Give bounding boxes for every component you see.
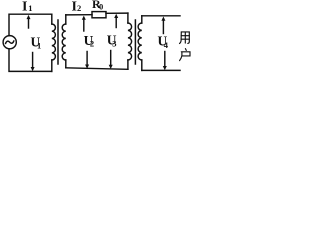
svg-text:0: 0 [99, 2, 103, 12]
svg-text:I: I [22, 0, 27, 15]
svg-text:1: 1 [28, 3, 32, 13]
svg-text:2: 2 [90, 38, 94, 48]
svg-text:3: 3 [112, 39, 116, 49]
svg-text:4: 4 [164, 40, 169, 50]
svg-text:2: 2 [77, 3, 81, 13]
svg-text:1: 1 [37, 40, 41, 50]
